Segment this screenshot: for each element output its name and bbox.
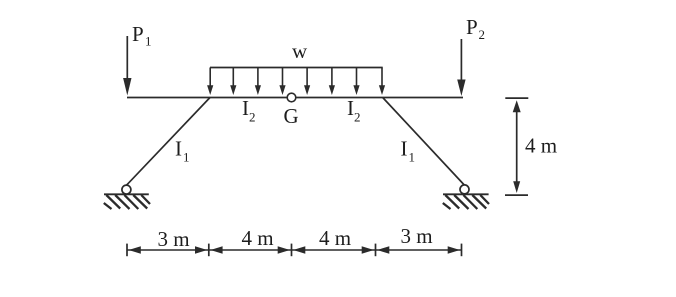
svg-text:w: w xyxy=(292,39,308,63)
svg-text:1: 1 xyxy=(183,149,190,164)
left support ground line xyxy=(104,193,149,195)
force P2 arrow xyxy=(457,39,465,96)
dimension ticks xyxy=(127,244,462,257)
right pin support circle xyxy=(460,185,469,194)
svg-text:I: I xyxy=(347,96,354,120)
right support hatching xyxy=(443,195,489,209)
left pin support circle xyxy=(122,185,131,194)
left support hatching xyxy=(104,195,150,209)
force P1 arrow xyxy=(123,36,131,96)
svg-text:3 m: 3 m xyxy=(158,227,190,251)
distributed load w top line xyxy=(210,67,383,69)
label I1 right xyxy=(401,137,416,165)
svg-text:P: P xyxy=(466,15,478,39)
svg-text:1: 1 xyxy=(145,34,152,49)
vertical dimension 4 m (right) xyxy=(505,98,528,195)
svg-text:1: 1 xyxy=(409,149,416,164)
svg-text:4 m: 4 m xyxy=(242,226,274,250)
svg-text:2: 2 xyxy=(249,110,256,125)
svg-text:I: I xyxy=(242,96,249,120)
member I1 right (inclined leg) xyxy=(383,98,465,186)
svg-text:3 m: 3 m xyxy=(401,224,433,248)
svg-text:4 m: 4 m xyxy=(525,133,557,157)
svg-text:2: 2 xyxy=(354,110,361,125)
beam (top chord) xyxy=(127,97,463,99)
svg-text:2: 2 xyxy=(479,27,486,42)
label I2 left xyxy=(242,96,256,124)
svg-text:P: P xyxy=(132,22,144,46)
svg-text:4 m: 4 m xyxy=(319,226,351,250)
hinge G circle xyxy=(287,93,296,102)
member I1 left (inclined leg) xyxy=(127,98,211,186)
right support ground line xyxy=(443,193,489,195)
label I2 right xyxy=(347,96,361,124)
svg-text:I: I xyxy=(175,137,182,161)
dimension arrowheads xyxy=(129,246,460,254)
svg-text:G: G xyxy=(284,104,299,128)
bottom dimension line xyxy=(127,249,462,251)
label I1 left xyxy=(175,137,190,165)
distributed load arrows xyxy=(207,68,385,96)
svg-text:I: I xyxy=(401,137,408,161)
